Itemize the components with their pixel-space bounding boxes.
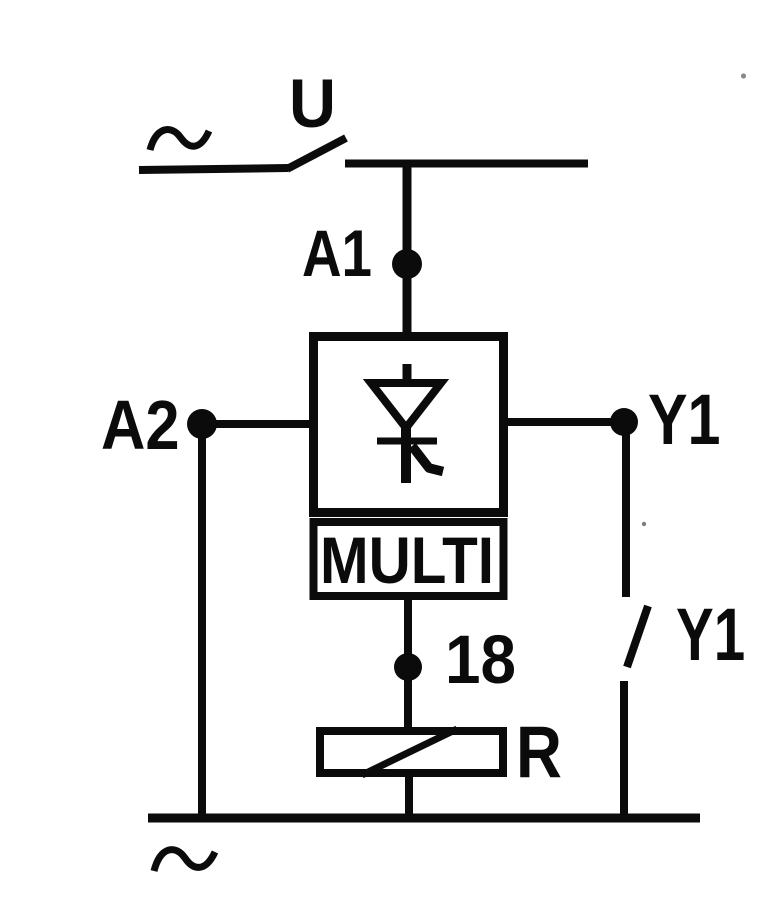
thyristor cathode lead [401,424,411,483]
svg-text:U: U [289,67,336,143]
wire A2 horizontal to box [202,420,312,428]
svg-text:A2: A2 [101,385,180,464]
wire top-right supply segment [345,160,588,168]
wire bottom supply rail [148,814,700,823]
wire from MULTI box to node 18 [404,597,412,667]
relay coil diagonal [362,729,457,775]
timer device box [314,337,504,513]
svg-text:A1: A1 [302,216,372,290]
node A1 [392,249,422,279]
scan speck top-right [741,73,746,78]
scan speck right of MULTI box [642,522,646,526]
switch U blade [287,138,346,169]
svg-text:MULTI: MULTI [320,524,494,597]
wire A2 vertical down to bottom rail [198,424,206,820]
svg-text:R: R [516,711,562,793]
thyristor triangle [371,383,441,428]
svg-text:Y1: Y1 [648,380,720,459]
wire Y1 horizontal from box [503,418,624,426]
thyristor gate lead [412,446,443,472]
AC source symbol ~ (top) [150,130,209,150]
AC source symbol ~ (bottom) [154,850,215,871]
wire Y1 vertical upper [622,422,630,597]
thyristor anode stub [403,364,412,384]
svg-text:18: 18 [445,622,516,699]
wire node 18 to relay coil [404,667,412,727]
node 18 [394,653,422,681]
wire top-left supply segment [139,168,288,170]
thyristor symbol inside box [371,364,443,483]
wire relay coil to bottom rail [405,777,413,820]
MULTI function box [314,522,504,596]
switch Y1 blade [627,606,648,667]
relay coil R box [320,731,503,773]
svg-text:Y1: Y1 [676,593,745,676]
wire vertical from supply to box (A1 branch) [403,163,412,336]
thyristor cathode bar [377,438,437,445]
wire Y1 vertical lower to bottom rail [620,681,628,820]
node A2 [187,409,217,439]
node Y1 [610,408,638,436]
